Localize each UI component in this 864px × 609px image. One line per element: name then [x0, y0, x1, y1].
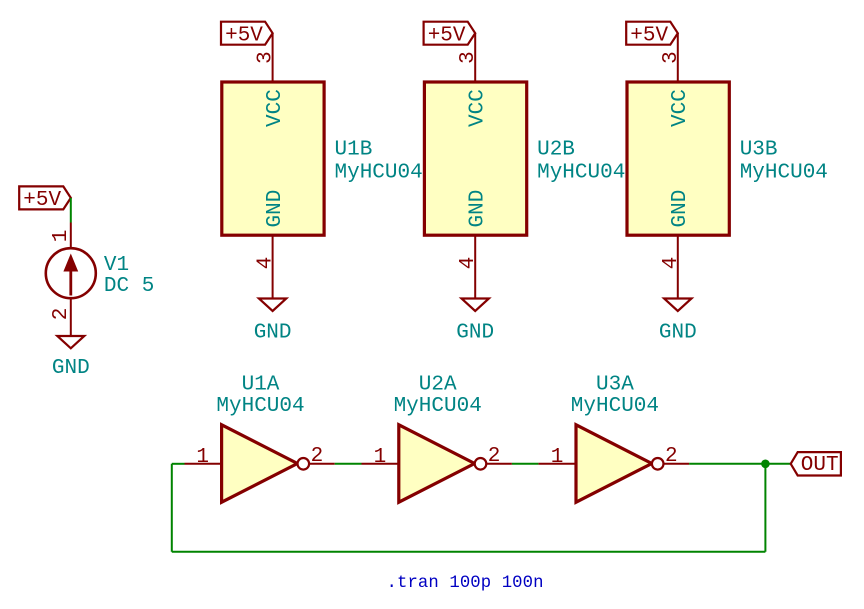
power flag +5V (V1 supply)	[19, 186, 71, 212]
power flag +5V (U3B)	[626, 22, 678, 48]
svg-text:3: 3	[457, 51, 480, 64]
wire U1A output to U2A input	[335, 463, 362, 465]
svg-text:U1B: U1B	[335, 138, 373, 161]
ground symbol below U1B	[254, 299, 292, 345]
svg-text:3: 3	[660, 51, 683, 64]
svg-text:U1A: U1A	[242, 374, 280, 397]
power flag +5V (U1B)	[221, 22, 273, 48]
svg-text:MyHCU04: MyHCU04	[740, 162, 828, 185]
wire feedback right vertical	[764, 464, 766, 552]
svg-text:1: 1	[551, 446, 564, 469]
svg-text:MyHCU04: MyHCU04	[216, 395, 304, 418]
wire from +5V flag to V1 pin 1	[70, 198, 72, 223]
svg-text:3: 3	[255, 51, 278, 64]
svg-text:4: 4	[255, 257, 278, 270]
wire U2A output to U3A input	[512, 463, 539, 465]
svg-text:1: 1	[50, 230, 73, 243]
wire feedback left vertical	[171, 464, 173, 552]
svg-text:4: 4	[660, 257, 683, 270]
inverter U3A	[538, 374, 689, 503]
svg-text:U3B: U3B	[740, 138, 778, 161]
ground symbol below U3B	[659, 299, 697, 345]
op-amp power unit U3B	[627, 33, 828, 298]
op-amp power unit U2B	[424, 33, 625, 298]
svg-text:GND: GND	[254, 322, 292, 345]
svg-text:+5V: +5V	[225, 24, 263, 47]
svg-text:VCC: VCC	[264, 89, 287, 127]
svg-text:+5V: +5V	[630, 24, 668, 47]
inverter U2A	[362, 374, 512, 503]
svg-text:MyHCU04: MyHCU04	[571, 395, 659, 418]
svg-text:OUT: OUT	[801, 454, 839, 477]
svg-text:GND: GND	[669, 190, 692, 228]
svg-text:1: 1	[196, 446, 209, 469]
svg-text:GND: GND	[264, 190, 287, 228]
svg-text:GND: GND	[456, 322, 494, 345]
svg-text:GND: GND	[466, 190, 489, 228]
svg-text:VCC: VCC	[669, 89, 692, 127]
wire junction to OUT label	[765, 463, 790, 465]
svg-text:U3A: U3A	[596, 374, 634, 397]
svg-text:U2A: U2A	[419, 374, 457, 397]
svg-text:+5V: +5V	[428, 24, 466, 47]
svg-text:V1: V1	[104, 254, 129, 277]
svg-text:DC 5: DC 5	[104, 275, 154, 298]
svg-text:U2B: U2B	[537, 138, 575, 161]
svg-text:GND: GND	[52, 357, 90, 380]
global label OUT	[791, 452, 841, 477]
svg-text:2: 2	[488, 445, 501, 468]
svg-text:VCC: VCC	[466, 89, 489, 127]
svg-text:.tran 100p 100n: .tran 100p 100n	[387, 574, 544, 593]
ground symbol below U2B	[456, 299, 494, 345]
ground symbol below V1	[52, 336, 90, 380]
svg-text:2: 2	[665, 445, 678, 468]
power flag +5V (U2B)	[424, 22, 476, 48]
svg-text:MyHCU04: MyHCU04	[537, 162, 625, 185]
svg-text:+5V: +5V	[23, 189, 61, 212]
svg-text:MyHCU04: MyHCU04	[335, 162, 423, 185]
svg-text:GND: GND	[659, 322, 697, 345]
op-amp power unit U1B	[222, 33, 423, 298]
junction	[761, 460, 770, 469]
wire U1A input	[172, 463, 185, 465]
wire feedback bottom	[172, 551, 766, 553]
wire U3A output to junction	[689, 463, 765, 465]
voltage source V1	[46, 223, 155, 337]
svg-text:1: 1	[374, 446, 387, 469]
inverter U1A	[185, 374, 335, 503]
svg-text:2: 2	[311, 445, 324, 468]
svg-text:4: 4	[457, 257, 480, 270]
svg-text:MyHCU04: MyHCU04	[394, 395, 482, 418]
svg-text:2: 2	[50, 308, 73, 321]
